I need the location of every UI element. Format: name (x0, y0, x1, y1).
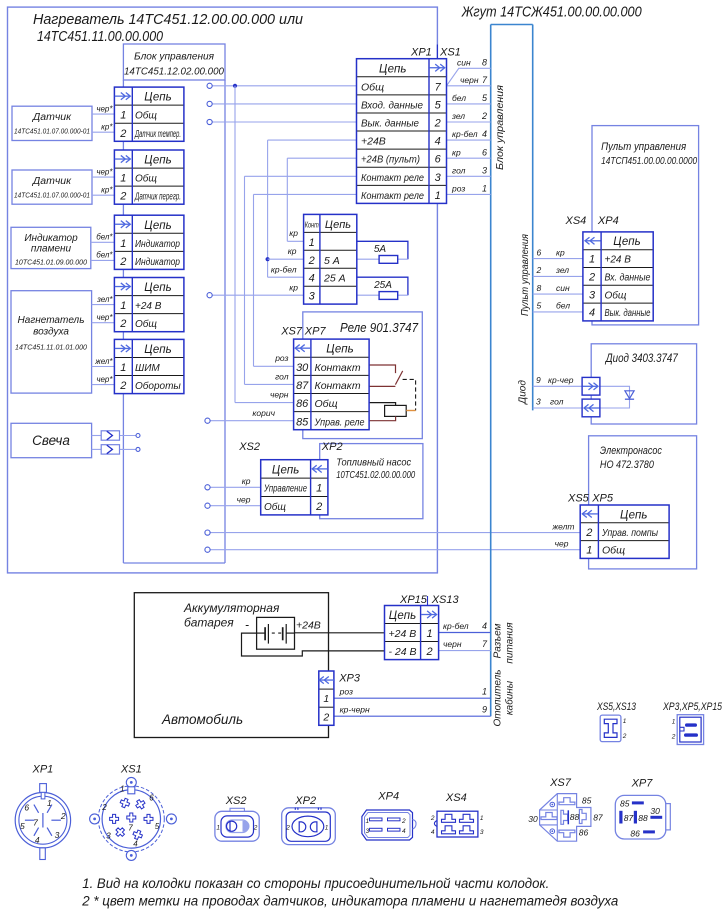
svg-text:Контакт реле: Контакт реле (361, 172, 424, 184)
svg-text:2: 2 (119, 318, 126, 330)
svg-text:Аккумуляторная: Аккумуляторная (183, 601, 280, 615)
svg-text:3: 3 (365, 828, 369, 835)
svg-text:14ТС451.11.01.01.000: 14ТС451.11.01.01.000 (15, 343, 88, 352)
svg-text:XP15: XP15 (399, 594, 428, 606)
svg-text:2: 2 (401, 818, 406, 825)
svg-text:+24 В: +24 В (135, 301, 162, 312)
svg-text:кабины: кабины (504, 680, 516, 715)
svg-text:Цепь: Цепь (613, 236, 640, 248)
svg-text:Датчик: Датчик (32, 111, 72, 123)
svg-text:Датчик перегр.: Датчик перегр. (134, 192, 181, 203)
svg-text:8: 8 (482, 57, 487, 67)
svg-text:2: 2 (119, 380, 126, 392)
svg-text:Индикатор: Индикатор (135, 257, 180, 268)
svg-text:черн: черн (443, 639, 462, 649)
svg-text:Цепь: Цепь (379, 63, 406, 75)
svg-text:XP3,XP5,XP15: XP3,XP5,XP15 (662, 701, 722, 713)
svg-text:Общ: Общ (135, 173, 157, 185)
svg-text:черн: черн (270, 390, 289, 400)
svg-text:14ТСП451.00.00.00.0000: 14ТСП451.00.00.00.0000 (601, 155, 697, 167)
svg-text:1: 1 (120, 300, 126, 312)
svg-text:1: 1 (480, 815, 484, 822)
svg-text:1: 1 (623, 718, 627, 725)
svg-text:2: 2 (285, 825, 290, 832)
svg-text:3: 3 (55, 830, 60, 840)
svg-text:2: 2 (101, 803, 107, 812)
svg-text:кр-бел: кр-бел (452, 129, 478, 139)
svg-text:Датчик темпер.: Датчик темпер. (134, 129, 181, 140)
svg-text:1: 1 (589, 254, 595, 266)
svg-text:10ТС451.02.00.00.000: 10ТС451.02.00.00.000 (336, 470, 415, 481)
svg-text:чер*: чер* (96, 167, 113, 176)
svg-text:Цепь: Цепь (144, 220, 171, 232)
svg-text:1: 1 (216, 825, 220, 832)
svg-text:7: 7 (33, 818, 38, 828)
svg-text:Пульт управления: Пульт управления (520, 233, 531, 316)
svg-text:2: 2 (60, 811, 66, 821)
svg-text:- 24 В: - 24 В (389, 646, 417, 658)
svg-text:чер: чер (555, 539, 569, 549)
svg-text:2: 2 (622, 733, 627, 740)
svg-text:5: 5 (537, 301, 542, 311)
svg-text:гол: гол (275, 371, 289, 381)
svg-text:Контакт реле: Контакт реле (361, 190, 424, 202)
svg-text:Цепь: Цепь (389, 610, 416, 622)
svg-text:5: 5 (155, 822, 160, 831)
svg-text:Общ: Общ (135, 110, 157, 122)
svg-text:6: 6 (482, 147, 487, 157)
svg-text:Цепь: Цепь (144, 155, 171, 167)
svg-text:9: 9 (536, 375, 541, 385)
svg-text:Разъем: Разъем (493, 623, 504, 658)
svg-text:14ТС451.12.02.00.000: 14ТС451.12.02.00.000 (124, 67, 224, 78)
svg-text:2: 2 (430, 815, 435, 822)
svg-text:30: 30 (296, 362, 309, 374)
svg-text:кр: кр (288, 246, 297, 256)
svg-text:чер*: чер* (96, 104, 113, 113)
svg-text:1: 1 (586, 545, 592, 557)
svg-text:5: 5 (20, 821, 25, 831)
svg-text:14ТС451.01.07.00.000-01: 14ТС451.01.07.00.000-01 (14, 129, 90, 136)
svg-text:бел*: бел* (96, 251, 113, 260)
svg-text:XS4: XS4 (565, 215, 587, 227)
svg-text:2: 2 (119, 191, 126, 203)
svg-text:XS5: XS5 (567, 493, 590, 505)
svg-text:Пульт управления: Пульт управления (601, 141, 686, 153)
svg-text:XP7: XP7 (631, 778, 654, 790)
svg-text:4: 4 (431, 829, 435, 836)
svg-text:Реле 901.3747: Реле 901.3747 (340, 320, 419, 335)
svg-text:6: 6 (149, 794, 154, 803)
svg-text:XS4: XS4 (445, 792, 467, 804)
svg-text:3: 3 (536, 397, 541, 407)
svg-text:Нагреватель 14ТС451.12.00.00.0: Нагреватель 14ТС451.12.00.00.000 или (33, 11, 304, 28)
svg-text:1: 1 (325, 825, 329, 832)
svg-text:2: 2 (253, 825, 258, 832)
svg-text:Вык. данные: Вык. данные (361, 118, 419, 130)
svg-text:кр: кр (289, 283, 298, 293)
svg-text:4: 4 (435, 136, 441, 148)
svg-text:8: 8 (537, 283, 542, 293)
svg-text:XS7: XS7 (549, 777, 572, 789)
svg-text:87: 87 (296, 380, 309, 392)
svg-text:6: 6 (24, 803, 29, 813)
svg-text:25 А: 25 А (323, 273, 346, 285)
svg-text:Контакт: Контакт (315, 362, 361, 374)
svg-text:кр: кр (289, 228, 298, 238)
svg-text:желт: желт (551, 522, 574, 532)
svg-text:кр*: кр* (101, 186, 113, 195)
svg-text:гол: гол (452, 165, 466, 175)
svg-text:XP7: XP7 (304, 326, 327, 338)
svg-text:Управ. реле: Управ. реле (314, 416, 365, 428)
svg-text:пламени: пламени (31, 244, 72, 255)
svg-text:+24 В: +24 В (605, 255, 632, 266)
svg-text:Нагнетатель: Нагнетатель (18, 315, 85, 326)
svg-text:88: 88 (570, 812, 580, 822)
svg-text:4: 4 (482, 621, 487, 631)
svg-text:3: 3 (589, 289, 596, 301)
svg-text:+24В (пульт): +24В (пульт) (361, 154, 420, 166)
svg-text:Цепь: Цепь (325, 219, 351, 231)
svg-text:зел: зел (555, 265, 569, 275)
svg-text:XS5,XS13: XS5,XS13 (596, 701, 636, 713)
svg-text:2 * цвет метки на проводах дат: 2 * цвет метки на проводах датчиков, инд… (81, 894, 618, 909)
svg-text:1: 1 (427, 628, 433, 640)
svg-text:14ТС451.11.00.00.000: 14ТС451.11.00.00.000 (37, 28, 164, 45)
svg-text:XS2: XS2 (238, 441, 260, 453)
svg-text:Индикатор: Индикатор (135, 239, 180, 250)
svg-text:30: 30 (650, 806, 660, 816)
svg-text:1: 1 (482, 184, 487, 194)
svg-text:2: 2 (481, 111, 487, 121)
svg-text:14ТС451.01.07.00.000-01: 14ТС451.01.07.00.000-01 (14, 193, 90, 200)
svg-text:кр-чер: кр-чер (548, 375, 574, 385)
svg-text:кр: кр (242, 476, 251, 486)
svg-text:Цепь: Цепь (326, 344, 353, 356)
svg-text:XS1: XS1 (439, 47, 461, 59)
svg-text:корич: корич (252, 408, 275, 418)
svg-text:роз: роз (451, 184, 465, 194)
svg-text:Вх. данные: Вх. данные (605, 273, 651, 284)
svg-text:XS7: XS7 (280, 326, 303, 338)
svg-text:1: 1 (120, 173, 126, 185)
svg-text:7: 7 (128, 824, 133, 833)
svg-text:+24 В: +24 В (389, 628, 417, 640)
svg-text:5А: 5А (374, 244, 387, 255)
svg-text:Общ: Общ (605, 289, 627, 301)
svg-text:Цепь: Цепь (144, 344, 171, 356)
svg-text:питания: питания (505, 622, 516, 664)
svg-text:XP1: XP1 (32, 764, 54, 776)
svg-text:+24В: +24В (361, 136, 386, 148)
svg-text:Общ: Общ (135, 318, 157, 330)
svg-text:87: 87 (593, 813, 603, 823)
svg-text:2: 2 (315, 501, 322, 513)
svg-text:85: 85 (620, 799, 630, 809)
svg-text:86: 86 (579, 828, 589, 838)
svg-text:87: 87 (624, 813, 634, 823)
svg-text:зел: зел (451, 111, 465, 121)
svg-text:Общ: Общ (361, 81, 384, 93)
svg-text:Вык. данные: Вык. данные (605, 308, 651, 319)
svg-text:1. Вид на колодки показан со с: 1. Вид на колодки показан со стороны при… (82, 876, 549, 891)
svg-text:10ТС451.01.09.00.000: 10ТС451.01.09.00.000 (15, 258, 88, 267)
svg-text:-: - (245, 618, 249, 632)
svg-text:85: 85 (582, 796, 592, 806)
svg-text:кр-бел: кр-бел (443, 621, 469, 631)
svg-text:9: 9 (482, 705, 487, 715)
svg-text:1: 1 (120, 785, 124, 794)
svg-text:5 А: 5 А (324, 255, 340, 267)
svg-text:2: 2 (119, 256, 126, 268)
svg-text:роз: роз (274, 353, 288, 363)
svg-text:2: 2 (308, 255, 315, 267)
svg-text:3: 3 (106, 832, 111, 841)
svg-text:Контакт: Контакт (315, 380, 361, 392)
svg-text:Диод: Диод (518, 380, 529, 405)
svg-text:Свеча: Свеча (32, 433, 70, 448)
svg-text:кр-черн: кр-черн (340, 705, 370, 715)
svg-text:1: 1 (435, 190, 441, 202)
svg-text:Общ: Общ (264, 501, 286, 513)
svg-text:гол: гол (550, 397, 564, 407)
svg-text:XP2: XP2 (294, 795, 316, 807)
svg-text:Цепь: Цепь (620, 509, 647, 521)
svg-text:6: 6 (435, 154, 442, 166)
svg-text:25А: 25А (373, 280, 392, 291)
svg-text:XS2: XS2 (225, 795, 247, 807)
svg-text:2: 2 (426, 646, 433, 658)
svg-text:Блок управления: Блок управления (134, 51, 214, 63)
svg-text:88: 88 (638, 813, 648, 823)
svg-text:1: 1 (120, 238, 126, 250)
svg-text:2: 2 (588, 272, 595, 284)
svg-text:Цепь: Цепь (272, 465, 299, 477)
svg-text:син: син (556, 283, 570, 293)
svg-text:Цепь: Цепь (144, 282, 171, 294)
svg-text:Конт: Конт (305, 220, 319, 229)
svg-text:2: 2 (585, 527, 592, 539)
svg-text:син: син (457, 57, 471, 67)
svg-text:XS1: XS1 (120, 764, 142, 776)
svg-text:30: 30 (528, 814, 538, 824)
svg-text:Обороты: Обороты (135, 380, 181, 392)
svg-text:бел*: бел* (96, 233, 113, 242)
svg-text:кр: кр (452, 147, 461, 157)
svg-text:4: 4 (35, 835, 40, 845)
svg-text:бел: бел (556, 301, 570, 311)
svg-text:Топливный насос: Топливный насос (336, 457, 412, 469)
svg-text:Диод 3403.3747: Диод 3403.3747 (604, 353, 678, 365)
svg-text:86: 86 (296, 398, 309, 410)
svg-text:Общ: Общ (602, 545, 625, 557)
svg-text:XP3: XP3 (338, 673, 361, 685)
svg-text:Управление: Управление (263, 484, 307, 495)
svg-text:XP2: XP2 (321, 441, 343, 453)
svg-text:85: 85 (296, 416, 309, 428)
svg-text:86: 86 (630, 828, 640, 838)
svg-text:1: 1 (316, 483, 322, 495)
svg-text:Цепь: Цепь (144, 92, 171, 104)
svg-text:3: 3 (435, 172, 442, 184)
svg-text:3: 3 (480, 829, 484, 836)
svg-text:4: 4 (402, 828, 406, 835)
svg-text:2: 2 (119, 128, 126, 140)
svg-text:1: 1 (120, 362, 126, 374)
svg-text:XS13: XS13 (431, 594, 460, 606)
svg-text:XP1: XP1 (410, 47, 432, 59)
svg-text:1: 1 (365, 818, 369, 825)
svg-text:батарея: батарея (184, 616, 234, 630)
svg-text:Блок управления: Блок управления (495, 84, 506, 170)
svg-text:4: 4 (482, 129, 487, 139)
svg-text:зел*: зел* (96, 295, 113, 304)
svg-text:1: 1 (309, 237, 315, 249)
svg-text:3: 3 (482, 165, 487, 175)
svg-text:кр*: кр* (101, 123, 113, 132)
svg-text:6: 6 (537, 247, 542, 257)
svg-text:7: 7 (435, 81, 442, 93)
svg-text:кр: кр (556, 247, 565, 257)
svg-text:4: 4 (589, 307, 595, 319)
svg-text:+24В: +24В (296, 620, 321, 632)
svg-text:кр-бел: кр-бел (271, 265, 297, 275)
svg-text:Индикатор: Индикатор (24, 233, 78, 244)
svg-text:4: 4 (309, 273, 315, 285)
svg-text:Жгут 14ТСЖ451.00.00.00.000: Жгут 14ТСЖ451.00.00.00.000 (461, 4, 642, 21)
svg-text:1: 1 (120, 110, 126, 122)
svg-text:жел*: жел* (94, 357, 113, 366)
svg-text:2: 2 (434, 118, 441, 130)
svg-text:1: 1 (47, 798, 52, 808)
svg-text:XP4: XP4 (597, 215, 619, 227)
svg-text:воздуха: воздуха (33, 327, 69, 338)
svg-text:ШИМ: ШИМ (135, 363, 160, 374)
svg-text:1: 1 (323, 693, 329, 705)
svg-text:Вход. данные: Вход. данные (361, 99, 423, 111)
svg-text:5: 5 (435, 99, 442, 111)
svg-text:XP5: XP5 (591, 493, 614, 505)
svg-text:2: 2 (322, 711, 329, 723)
svg-text:1: 1 (482, 687, 487, 697)
svg-text:Датчик: Датчик (32, 175, 72, 187)
svg-text:бел: бел (452, 93, 466, 103)
svg-text:2: 2 (536, 265, 542, 275)
svg-text:3: 3 (309, 291, 316, 303)
svg-text:4: 4 (133, 840, 138, 849)
svg-text:Отопитель: Отопитель (493, 669, 504, 726)
svg-text:2: 2 (671, 734, 676, 741)
svg-text:Автомобиль: Автомобиль (161, 712, 243, 727)
svg-text:Общ: Общ (315, 398, 338, 410)
svg-text:роз: роз (339, 687, 353, 697)
svg-text:1: 1 (672, 719, 676, 726)
svg-text:чер*: чер* (96, 375, 113, 384)
svg-text:Электронасос: Электронасос (600, 445, 662, 457)
svg-text:чер*: чер* (96, 313, 113, 322)
svg-text:НО 472.3780: НО 472.3780 (600, 459, 655, 471)
svg-text:Управ. помпы: Управ. помпы (601, 527, 658, 539)
svg-text:чер: чер (237, 495, 251, 505)
svg-text:черн: черн (460, 75, 479, 85)
svg-text:XP4: XP4 (377, 791, 399, 803)
